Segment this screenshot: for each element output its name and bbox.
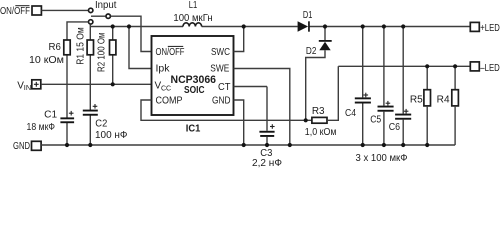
wire top rail middle segment [202,26,298,28]
svg-text:–LED: –LED [480,63,500,74]
wire VIN rail to IC Vcc [41,83,152,85]
wire Ipk pin to top rail [129,27,152,69]
svg-text:C5: C5 [370,115,381,126]
svg-text:3 x 100 мкФ: 3 x 100 мкФ [356,153,408,164]
capacitor C2 [83,110,98,116]
svg-text:+LED: +LED [480,23,500,34]
junction dot R2 bottom on VIN rail [111,82,115,86]
wire R6/C1 column [66,55,68,145]
capacitor C3 [259,131,274,137]
junction dots GND rail [65,143,429,147]
wire R1 column [89,25,91,145]
svg-text:2,2 нФ: 2,2 нФ [252,158,282,169]
wire top rail right segment [309,26,471,28]
plus C3 [270,124,275,129]
svg-text:SWC: SWC [211,47,230,58]
node ON/OFF input terminal label [0,6,30,17]
wire C5 column [383,27,385,146]
capacitor C4 [355,97,371,103]
wire C3 to GND rail [266,137,268,145]
terminal square ON/OFF [32,6,41,15]
svg-text:C1: C1 [44,110,57,121]
wire second rail (-LED) [338,65,470,67]
pin label ON/OFF [156,46,185,57]
terminal square +LED [470,22,479,31]
svg-text:IN: IN [24,83,31,92]
svg-text:R4: R4 [437,95,450,106]
junction dots second rail [425,64,457,68]
diode D2 [306,27,332,121]
resistor R1 [87,40,93,55]
wire C4 column [362,27,364,146]
wire CT down to C3 [234,86,268,88]
svg-text:C6: C6 [389,122,401,133]
svg-text:C2: C2 [95,118,107,129]
svg-text:ON/OFF: ON/OFF [156,47,185,58]
svg-text:C4: C4 [345,108,356,119]
svg-text:Ipk: Ipk [156,64,171,75]
svg-text:Input: Input [95,0,117,11]
capacitor C5 [378,106,394,112]
wire switch pole to IC ON/OFF pin [111,16,152,51]
svg-text:D2: D2 [306,46,317,57]
wire SWE to GND rail [234,69,290,146]
svg-text:ON/OFF: ON/OFF [0,6,30,17]
resistor R5 [424,66,431,145]
switch SA1 [89,8,111,24]
svg-text:R1 15 Ом: R1 15 Ом [76,27,87,65]
wire ON/OFF terminal to switch throw 1 [42,9,89,11]
terminal square -LED [470,62,479,71]
wire C6 column [402,27,404,146]
svg-text:CT: CT [218,82,231,93]
plus C6 [404,109,409,114]
node VIN terminal label [17,80,31,92]
svg-text:R3: R3 [312,106,325,117]
plus C5 [386,101,391,106]
svg-text:NCP3066: NCP3066 [171,74,217,86]
resistor R3 [312,117,327,123]
resistor R4 [452,66,459,145]
capacitor C1 [60,117,74,123]
svg-text:100 нФ: 100 нФ [95,130,128,141]
svg-text:GND: GND [13,141,30,152]
wire GND rail [41,144,455,146]
svg-text:R6: R6 [49,42,62,53]
wire COMP underpass to R3 [141,100,313,120]
wire SWC to top rail [234,27,244,52]
plus C4 [364,93,369,98]
svg-text:SOIC: SOIC [184,85,205,96]
svg-text:D1: D1 [303,10,313,21]
resistor R2 [110,40,116,55]
op-amp IC1 box NCP3066 [152,36,234,115]
wire switch throw 2 to R6 top [67,22,88,40]
wire R2 column [112,27,114,85]
plus C1 [69,111,74,116]
svg-text:L1: L1 [189,0,198,11]
svg-text:COMP: COMP [156,95,183,106]
svg-text:R2 100 Ом: R2 100 Ом [97,32,108,72]
terminal square GND [32,141,42,150]
svg-text:IC1: IC1 [186,123,201,135]
junction dot R3 left with D2 anode [304,118,308,122]
terminal square VIN with plus [32,80,41,89]
junction dots top rail [111,24,406,28]
capacitor C6 [395,114,411,120]
svg-text:GND: GND [212,95,231,106]
svg-text:10 кОм: 10 кОм [29,55,64,66]
svg-text:1,0 кОм: 1,0 кОм [305,127,337,138]
svg-text:18 мкФ: 18 мкФ [27,122,56,133]
resistor R6 [64,40,70,55]
wire IC GND pin to GND rail [234,100,244,145]
wire top rail left segment [90,26,183,28]
pin label Vcc [155,80,172,92]
svg-text:R5: R5 [410,95,423,106]
svg-text:CC: CC [161,85,171,92]
plus C2 [93,104,98,109]
diode D1 [298,21,310,31]
inductor L1 [183,23,202,27]
wire R3 right to second rail [327,66,338,120]
